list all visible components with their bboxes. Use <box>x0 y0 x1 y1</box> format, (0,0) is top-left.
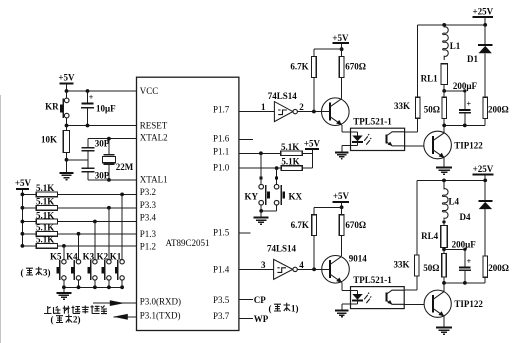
svg-text:9014: 9014 <box>349 254 368 264</box>
wire opto2 to TIP122 base <box>404 303 424 305</box>
svg-text:VCC: VCC <box>140 86 159 96</box>
label mode1 <box>269 303 299 314</box>
wire P1.0 net <box>239 166 281 170</box>
svg-text:P3.2: P3.2 <box>140 187 156 197</box>
push button KY <box>245 153 270 211</box>
svg-text:TPL521-1: TPL521-1 <box>353 116 392 126</box>
svg-text:50Ω: 50Ω <box>424 105 440 115</box>
wire node B (ch2) <box>442 281 485 285</box>
ground (opto1 LED) <box>335 146 349 159</box>
ground (TIP122 ch1) <box>436 167 452 174</box>
pin stub P1.5 <box>239 232 251 234</box>
resistor R-P34 5.1K <box>21 210 137 224</box>
push button K1 <box>110 194 125 287</box>
ground (10K) <box>59 158 73 180</box>
power +25V (ch2) <box>473 164 494 181</box>
svg-text:+5V: +5V <box>15 178 32 188</box>
capacitor 30P (upper) <box>81 138 109 168</box>
svg-text:K2: K2 <box>97 251 109 261</box>
ground (TIP122 ch2) <box>436 327 452 334</box>
svg-text:P3.4: P3.4 <box>140 212 157 222</box>
svg-text:30P: 30P <box>95 138 110 148</box>
svg-text:RESET: RESET <box>140 120 168 130</box>
svg-text:RL1: RL1 <box>421 73 439 83</box>
svg-text:+: + <box>467 100 472 109</box>
svg-text:+5V: +5V <box>333 191 350 201</box>
svg-text:XTAL1: XTAL1 <box>140 174 168 184</box>
svg-text:670Ω: 670Ω <box>345 220 366 230</box>
svg-text:50Ω: 50Ω <box>423 263 439 273</box>
wire +25V rail (ch2) <box>417 179 487 183</box>
svg-text:D4: D4 <box>460 212 471 222</box>
ground (keys) <box>56 287 71 299</box>
svg-text:KR: KR <box>45 102 59 112</box>
power +5V (key rail) <box>15 178 32 246</box>
svg-text:WP: WP <box>254 314 269 324</box>
push button KR <box>45 91 69 126</box>
push button K3 <box>83 222 98 288</box>
svg-text:D1: D1 <box>467 54 478 64</box>
optocoupler U4 TPL521-1 <box>342 275 404 309</box>
svg-text:KX: KX <box>289 191 303 201</box>
svg-text:K3: K3 <box>83 251 95 261</box>
svg-text:): ) <box>48 267 51 277</box>
svg-text:TIP122: TIP122 <box>454 299 483 309</box>
svg-text:+5V: +5V <box>58 73 75 83</box>
svg-text:200μF: 200μF <box>453 81 478 91</box>
svg-text:P3.1(TXD): P3.1(TXD) <box>140 311 181 321</box>
resistor R-P33 5.1K <box>21 197 137 211</box>
capacitor 200uF (ch1) <box>453 81 478 125</box>
resistor RL1 <box>421 64 448 91</box>
resistor R-P13 5.1K <box>21 223 137 237</box>
wire XTAL1 net <box>88 178 137 182</box>
power +5V (reset rail) <box>58 73 75 92</box>
svg-text:P1.6: P1.6 <box>213 133 230 143</box>
svg-text:P1.5: P1.5 <box>213 227 230 237</box>
push button K4 <box>66 234 81 287</box>
svg-text:+: + <box>467 257 472 266</box>
wire RESET net <box>65 124 137 128</box>
svg-text:33K: 33K <box>393 259 409 269</box>
svg-text:200Ω: 200Ω <box>488 263 509 273</box>
resistor 10K <box>41 126 70 173</box>
transistor Q1 <box>322 98 350 132</box>
label host control signal <box>44 305 107 313</box>
wire key bus <box>62 285 124 289</box>
wire node A (ch2) <box>442 247 466 251</box>
svg-text:P1.7: P1.7 <box>213 104 230 114</box>
svg-text:3: 3 <box>261 260 266 270</box>
optocoupler U3 TPL521-1 <box>342 116 405 150</box>
power +25V (ch1) <box>472 7 493 25</box>
svg-text:+: + <box>89 93 94 102</box>
inductor L4 <box>442 180 459 223</box>
svg-text:+25V: +25V <box>473 164 494 174</box>
diode D4 <box>460 180 493 256</box>
svg-text:(: ( <box>269 303 272 313</box>
resistor 6.7K (ch2) <box>291 215 317 269</box>
wire opto1 to TIP122 base <box>405 145 424 147</box>
svg-text:): ) <box>78 315 81 325</box>
svg-text:6.7K: 6.7K <box>291 220 309 230</box>
push button K5 <box>50 246 66 287</box>
svg-text:4: 4 <box>299 260 304 270</box>
label mode2 <box>51 314 81 324</box>
resistor 200ohm (ch2) <box>483 256 509 283</box>
svg-text:6.7K: 6.7K <box>290 62 308 72</box>
transistor Q2 9014 <box>322 254 368 291</box>
svg-text:RL4: RL4 <box>421 231 439 241</box>
label mode3 <box>21 267 51 278</box>
push button KX <box>274 168 302 211</box>
ground (KY KX) <box>254 211 269 224</box>
inverter 74LS14 (A) <box>268 91 330 122</box>
svg-text:74LS14: 74LS14 <box>267 244 297 254</box>
wire node B (ch1) <box>442 124 485 128</box>
resistor 33K (ch1) <box>394 25 420 132</box>
inductor L1 <box>443 25 461 60</box>
pin WP (P3.7) <box>239 314 269 324</box>
svg-text:+5V: +5V <box>304 139 321 149</box>
wire node A (ch1) <box>442 89 466 93</box>
resistor 50ohm (ch1) <box>424 91 447 126</box>
resistor RL4 <box>421 222 447 249</box>
svg-text:(: ( <box>21 267 24 277</box>
wire P1.7 net <box>239 102 275 112</box>
svg-text:1: 1 <box>261 102 266 112</box>
svg-text:+5V: +5V <box>332 33 349 43</box>
svg-text:P3.3: P3.3 <box>140 200 157 210</box>
resistor 5.1K (P1.0 pullup) <box>281 156 313 170</box>
svg-text:K4: K4 <box>66 251 78 261</box>
svg-text:): ) <box>296 303 299 313</box>
arrow RXD in <box>93 300 137 306</box>
svg-text:(: ( <box>51 315 54 325</box>
transistor Q3 TIP122 <box>424 125 483 166</box>
wire +25V rail (ch1) <box>418 23 487 27</box>
svg-text:L1: L1 <box>450 41 461 51</box>
diode D1 <box>467 25 492 97</box>
svg-text:P1.4: P1.4 <box>213 265 230 275</box>
svg-text:P1.2: P1.2 <box>140 241 156 251</box>
transistor Q4 TIP122 <box>424 283 483 327</box>
inverter 74LS14 (B) <box>267 244 330 280</box>
ground (opto2 LED) <box>335 304 349 317</box>
svg-text:10K: 10K <box>41 135 57 145</box>
svg-text:XTAL2: XTAL2 <box>140 132 168 142</box>
pin stub P1.6 <box>239 138 253 140</box>
svg-text:2: 2 <box>299 102 304 112</box>
svg-text:P3.5: P3.5 <box>213 295 230 305</box>
svg-text:L4: L4 <box>449 196 460 206</box>
power +5V (pullup rail) <box>304 139 321 169</box>
svg-text:670Ω: 670Ω <box>345 62 366 72</box>
arrow TXD out <box>113 314 136 320</box>
svg-text:22M: 22M <box>116 162 134 172</box>
resistor 670ohm (ch2) <box>339 207 366 256</box>
svg-text:74LS14: 74LS14 <box>268 91 298 101</box>
resistor 50ohm (ch2) <box>423 249 446 283</box>
resistor 670ohm (ch1) <box>339 49 366 98</box>
svg-text:33K: 33K <box>394 101 410 111</box>
resistor R-P32 5.1K <box>21 183 137 197</box>
wire VCC net <box>65 89 137 93</box>
resistor 200ohm (ch1) <box>483 97 509 125</box>
push button K2 <box>97 208 112 287</box>
svg-text:K1: K1 <box>110 251 122 261</box>
wire P1.1 net <box>239 151 281 155</box>
svg-text:AT89C2051: AT89C2051 <box>166 238 210 248</box>
svg-text:200Ω: 200Ω <box>488 105 509 115</box>
wire ground tie <box>67 159 89 161</box>
svg-text:TPL521-1: TPL521-1 <box>353 275 392 285</box>
svg-text:5.1K: 5.1K <box>281 156 299 166</box>
resistor R-P12 5.1K <box>21 235 137 249</box>
power +5V (ch2) <box>314 191 349 215</box>
crystal 22M <box>102 139 133 180</box>
resistor 6.7K (ch1) <box>290 56 316 111</box>
wire XTAL2 net <box>88 137 137 141</box>
svg-text:KY: KY <box>245 191 259 201</box>
svg-text:P1.3: P1.3 <box>140 229 157 239</box>
wire P1.4 net <box>239 260 274 270</box>
pin CP (P3.5) <box>239 295 266 305</box>
capacitor 200uF (ch2) <box>452 239 477 283</box>
power +5V (ch1) <box>314 33 349 57</box>
svg-text:P1.0: P1.0 <box>213 162 230 172</box>
capacitor 10uF <box>81 91 116 126</box>
capacitor 30P (lower) <box>81 168 109 180</box>
resistor 5.1K (P1.1 pullup) <box>281 142 313 156</box>
svg-text:TIP122: TIP122 <box>454 141 483 151</box>
wire KY-KX tie <box>259 209 276 213</box>
svg-text:10μF: 10μF <box>96 104 116 114</box>
svg-text:P3.0(RXD): P3.0(RXD) <box>140 297 181 307</box>
svg-text:200μF: 200μF <box>452 239 477 249</box>
IC U1 AT89C2051 <box>137 77 239 330</box>
svg-text:P1.1: P1.1 <box>213 146 229 156</box>
resistor 33K (ch2) <box>393 180 419 290</box>
svg-text:CP: CP <box>254 295 266 305</box>
svg-text:P3.7: P3.7 <box>213 311 230 321</box>
svg-text:+25V: +25V <box>472 7 493 17</box>
